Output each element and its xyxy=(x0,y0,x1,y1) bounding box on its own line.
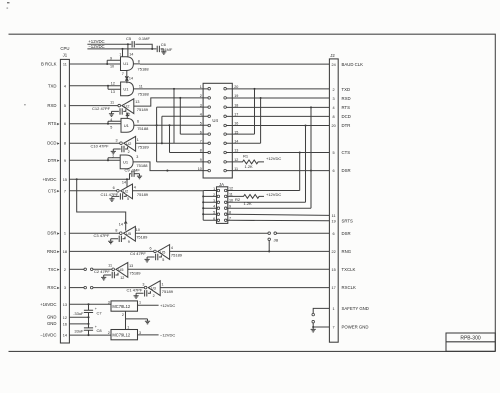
svg-text:8: 8 xyxy=(138,59,140,63)
svg-text:3: 3 xyxy=(108,301,110,305)
svg-text:DSR: DSR xyxy=(47,231,56,236)
svg-text:5: 5 xyxy=(127,197,129,201)
svg-text:2: 2 xyxy=(153,294,155,298)
svg-text:RTS: RTS xyxy=(48,121,57,126)
wire JA input bus xyxy=(203,191,217,221)
wire -16VDC from J1 to regulator 2 xyxy=(69,334,111,336)
svg-text:7: 7 xyxy=(122,72,124,76)
wire -12VDC rail xyxy=(87,48,163,50)
svg-text:75188: 75188 xyxy=(138,91,150,96)
svg-text:RTS: RTS xyxy=(342,105,351,110)
wire RXD input from U4 pin 2 xyxy=(134,98,208,106)
svg-text:U5: U5 xyxy=(126,231,132,236)
op-amp U5 receiver (TXC) xyxy=(112,263,128,278)
regulator U7 MC79L12 xyxy=(111,330,138,340)
op-amp U1 driver gate (TXD) xyxy=(121,82,134,96)
svg-text:JB: JB xyxy=(274,237,279,242)
svg-text:DTR: DTR xyxy=(342,123,351,128)
wire RTS output to U4 pin 5 xyxy=(134,124,208,126)
connector J1 (CPU) body xyxy=(60,46,69,343)
svg-text:CTS: CTS xyxy=(48,188,57,193)
U4 right pin circles xyxy=(224,87,227,171)
wire +5VDC from J1 xyxy=(69,174,131,180)
wire regulator ground link xyxy=(126,311,148,329)
svg-text:CTS: CTS xyxy=(342,150,351,155)
J2 pin numbers xyxy=(331,63,335,329)
svg-text:14: 14 xyxy=(129,77,133,81)
U4 left pin circles xyxy=(208,87,211,171)
svg-text:75189: 75189 xyxy=(129,271,141,276)
svg-text:U2: U2 xyxy=(123,189,129,194)
svg-text:12: 12 xyxy=(111,82,115,86)
svg-text:11: 11 xyxy=(108,263,112,267)
svg-text:−16VDC: −16VDC xyxy=(40,333,56,338)
svg-text:+5VDC: +5VDC xyxy=(43,177,57,182)
svg-text:RNG: RNG xyxy=(342,249,352,254)
connector J2 body xyxy=(329,53,338,342)
wire v1 vertical xyxy=(157,107,208,162)
wire +16VDC from J1 to regulator xyxy=(69,303,111,305)
wire JA pin8 to J2 pin11 xyxy=(227,214,329,215)
wire U4 pin18 to J2 pin4 xyxy=(226,106,329,108)
node TXD/v4 xyxy=(173,88,175,90)
svg-text:MC79L12: MC79L12 xyxy=(112,333,130,338)
svg-text:6: 6 xyxy=(150,247,152,251)
wire CTS pwr stub xyxy=(126,179,128,187)
svg-text:DCD: DCD xyxy=(342,114,351,119)
wire CTS output to J1 xyxy=(69,190,116,192)
J1 pin numbers xyxy=(63,63,67,338)
svg-text:MC78L12: MC78L12 xyxy=(112,304,130,309)
svg-text:14: 14 xyxy=(129,53,133,57)
svg-text:+16VDC: +16VDC xyxy=(40,302,56,307)
svg-text:U1: U1 xyxy=(123,87,129,92)
op-amp U5 receiver (DSR) xyxy=(120,226,136,241)
svg-text:5: 5 xyxy=(162,258,164,262)
svg-text:1.2K: 1.2K xyxy=(244,201,253,206)
svg-text:19: 19 xyxy=(331,219,335,223)
wire U1 gnd stub pin7 xyxy=(126,71,128,75)
U4 left pin numbers 1-10 xyxy=(198,85,202,171)
svg-text:1: 1 xyxy=(127,325,129,329)
svg-text:DSR: DSR xyxy=(342,168,351,173)
jumper RXC open pins xyxy=(84,286,87,289)
svg-text:TXCLK: TXCLK xyxy=(342,267,356,272)
svg-text:8: 8 xyxy=(64,142,66,146)
wire GND rows from J1 xyxy=(69,317,88,324)
op-amp U1 driver gate (DTR) xyxy=(120,155,133,169)
svg-text:22: 22 xyxy=(331,250,335,254)
svg-text:16: 16 xyxy=(63,322,67,326)
wire DSR output to J1 xyxy=(69,232,119,234)
svg-text:2: 2 xyxy=(128,150,130,154)
IC U4 DIP header body xyxy=(203,83,232,178)
svg-text:U4: U4 xyxy=(212,118,218,123)
svg-text:14: 14 xyxy=(119,222,123,226)
svg-text:U5: U5 xyxy=(118,267,124,272)
wire U4 pin17 to J2 pin8 xyxy=(226,115,329,117)
node RTS/v1 xyxy=(156,124,158,126)
svg-text:R2: R2 xyxy=(235,197,241,202)
svg-text:11: 11 xyxy=(332,214,336,218)
svg-text:5: 5 xyxy=(200,122,202,126)
svg-text:1: 1 xyxy=(119,53,121,57)
svg-text:13: 13 xyxy=(129,264,133,268)
svg-text:2: 2 xyxy=(333,88,335,92)
svg-text:GND: GND xyxy=(47,315,57,320)
svg-text:DSR: DSR xyxy=(342,231,351,236)
svg-text:9: 9 xyxy=(110,56,112,60)
wire DTR output to U4 pin 10 xyxy=(133,162,208,171)
svg-text:0.1MF: 0.1MF xyxy=(139,36,151,41)
svg-text:2: 2 xyxy=(112,155,114,159)
svg-text:1: 1 xyxy=(200,85,202,89)
svg-text:20: 20 xyxy=(234,85,238,89)
op-amp U1 driver gate (B RCLK) xyxy=(121,57,134,71)
wire RXC from J1 to jumper xyxy=(69,287,84,289)
svg-text:12: 12 xyxy=(120,276,124,280)
svg-text:DCD: DCD xyxy=(47,141,56,146)
svg-text:2: 2 xyxy=(122,313,124,317)
svg-text:R1: R1 xyxy=(243,153,249,158)
JA right pin circles xyxy=(224,189,227,221)
svg-text:12: 12 xyxy=(63,316,67,320)
wire v5 to U4 pin8 xyxy=(170,125,209,152)
capacitor C8 xyxy=(88,324,90,335)
svg-text:75189: 75189 xyxy=(171,253,183,258)
node RTS/v5 xyxy=(168,124,170,126)
wire J2 pin5 line xyxy=(300,152,330,154)
wire U4 pin6 to v3 xyxy=(180,98,208,134)
wire U4 pin19 to J2 pin3 xyxy=(226,97,329,99)
capacitor C7 xyxy=(88,304,90,317)
svg-text:RXCLK: RXCLK xyxy=(342,285,356,290)
svg-text:33uF: 33uF xyxy=(74,329,84,334)
svg-text:+12VDC: +12VDC xyxy=(160,303,175,308)
wire +12VDC output xyxy=(138,304,159,306)
svg-text:4: 4 xyxy=(333,106,335,110)
svg-text:U1: U1 xyxy=(123,160,129,165)
capacitor C6 xyxy=(157,46,159,52)
svg-text:POWER GND: POWER GND xyxy=(342,325,369,330)
svg-text:C5: C5 xyxy=(126,36,132,41)
wire JB drop to RNG net xyxy=(268,241,270,252)
J2 signal name labels xyxy=(342,62,369,329)
regulator U6 MC78L12 xyxy=(111,301,138,311)
svg-text:6: 6 xyxy=(64,122,66,126)
op-amp U2 receiver (DCD) xyxy=(120,136,136,151)
scan specks xyxy=(7,2,10,3)
svg-text:10: 10 xyxy=(136,228,140,232)
jumper JB xyxy=(268,232,271,235)
svg-text:75188: 75188 xyxy=(138,67,150,72)
svg-text:5: 5 xyxy=(110,126,112,130)
svg-text:+12VDC: +12VDC xyxy=(266,156,281,161)
wire RXD output to J1 xyxy=(69,105,118,107)
svg-text:75189: 75189 xyxy=(136,234,148,239)
svg-text:14: 14 xyxy=(63,334,67,338)
JA left pin circles xyxy=(217,189,220,221)
svg-text:8: 8 xyxy=(115,228,117,232)
wire RNG output to J1 xyxy=(69,250,153,252)
jumper TXC open pins xyxy=(84,268,87,271)
svg-text:RXC: RXC xyxy=(47,285,56,290)
wire U4 pin13 to node v10 xyxy=(226,152,299,154)
svg-text:TXD: TXD xyxy=(342,87,351,92)
svg-text:75188: 75188 xyxy=(137,126,149,131)
wire TXC from J1 to jumper xyxy=(69,268,84,270)
svg-text:RNG: RNG xyxy=(47,249,57,254)
JA right pin numbers xyxy=(229,187,233,221)
op-amp U2 receiver (RXD) xyxy=(118,99,134,114)
svg-text:75189: 75189 xyxy=(138,145,150,150)
svg-text:3: 3 xyxy=(64,286,66,290)
svg-text:7: 7 xyxy=(64,189,66,193)
ground (power gnd) xyxy=(311,327,316,332)
power arrow (U1 pin 14) xyxy=(126,78,129,83)
svg-text:9: 9 xyxy=(229,204,231,208)
node RTS branch xyxy=(107,123,109,125)
svg-text:6: 6 xyxy=(137,120,139,124)
svg-text:14: 14 xyxy=(122,180,126,184)
svg-text:U2: U2 xyxy=(124,104,130,109)
ground (U1) xyxy=(125,74,128,79)
svg-text:10: 10 xyxy=(198,167,202,171)
svg-text:TXD: TXD xyxy=(48,83,57,88)
svg-text:1: 1 xyxy=(162,282,164,286)
node DCD/v2 xyxy=(161,142,163,144)
svg-text:J2: J2 xyxy=(330,53,335,58)
svg-text:2: 2 xyxy=(108,331,110,335)
node B RCLK branch xyxy=(106,63,108,65)
svg-text:+12VDC: +12VDC xyxy=(266,192,281,197)
svg-text:RXD: RXD xyxy=(47,103,56,108)
svg-text:9: 9 xyxy=(128,240,130,244)
svg-text:U2: U2 xyxy=(126,141,132,146)
wire DTR from J1 xyxy=(69,158,120,161)
svg-text:9: 9 xyxy=(64,159,66,163)
J1 label direction arrows xyxy=(57,123,59,289)
svg-text:20: 20 xyxy=(331,124,335,128)
wire RXC input to J2 pin17 xyxy=(160,287,329,289)
svg-text:75189: 75189 xyxy=(137,107,149,112)
ground (C9) xyxy=(137,174,142,179)
svg-text:1: 1 xyxy=(137,138,139,142)
wire v4 vertical xyxy=(173,89,175,143)
wire U4 pin11 to J2 pin6 xyxy=(226,170,329,172)
svg-text:U5: U5 xyxy=(160,249,166,254)
svg-text:C2 47PF: C2 47PF xyxy=(94,269,110,274)
svg-text:3: 3 xyxy=(139,331,141,335)
JA left pin numbers xyxy=(213,187,215,221)
wire JA pin7 to J2 pin19 xyxy=(227,219,329,222)
svg-text:RPB-300: RPB-300 xyxy=(460,336,481,342)
wire U4 pin16 to J2 pin20 xyxy=(226,125,329,127)
svg-text:10: 10 xyxy=(110,65,114,69)
svg-text:13: 13 xyxy=(63,303,67,307)
svg-text:CPU: CPU xyxy=(60,46,69,51)
svg-text:3: 3 xyxy=(333,97,335,101)
svg-text:12: 12 xyxy=(229,187,233,191)
wire U1 power stubs xyxy=(123,44,128,56)
wire TXD from J1 xyxy=(69,86,120,90)
svg-text:3: 3 xyxy=(115,138,117,142)
U4 right pin numbers 20-11 xyxy=(234,85,238,171)
svg-text:SRTS: SRTS xyxy=(342,218,354,223)
svg-text:4: 4 xyxy=(134,185,136,189)
svg-text:15: 15 xyxy=(63,178,67,182)
svg-text:C4 47PF: C4 47PF xyxy=(130,251,146,256)
op-amp U3 receiver (RXC) xyxy=(144,281,160,296)
svg-text:7: 7 xyxy=(333,326,335,330)
svg-text:13: 13 xyxy=(135,100,139,104)
wire TXC input to J2 pin15 xyxy=(128,268,330,270)
svg-text:J1: J1 xyxy=(63,52,68,57)
op-amp U5 receiver (RNG) xyxy=(154,245,170,260)
node +5VDC CTS pwr xyxy=(126,178,128,180)
svg-text:18: 18 xyxy=(63,250,67,254)
wire B RCLK from J1 xyxy=(69,60,120,64)
wire TXD output to U4 pin 1 xyxy=(134,88,209,90)
svg-text:11: 11 xyxy=(110,101,114,105)
title block xyxy=(446,333,495,351)
svg-text:3: 3 xyxy=(136,155,138,159)
svg-text:C12 47PF: C12 47PF xyxy=(92,106,111,111)
wire -12VDC output xyxy=(138,334,159,336)
svg-text:C8: C8 xyxy=(97,328,103,333)
border frame xyxy=(9,34,496,351)
svg-text:15: 15 xyxy=(331,268,335,272)
svg-text:1: 1 xyxy=(64,232,66,236)
svg-text:6: 6 xyxy=(333,232,335,236)
op-amp U2 receiver (CTS) xyxy=(117,184,133,199)
svg-text:1: 1 xyxy=(333,307,335,311)
svg-text:4: 4 xyxy=(64,84,66,88)
svg-text:−12VDC: −12VDC xyxy=(160,333,175,338)
svg-text:C10 47PF: C10 47PF xyxy=(91,144,110,149)
svg-text:2: 2 xyxy=(200,94,202,98)
svg-text:U3: U3 xyxy=(151,286,157,291)
wire U4 pin20 to J2 pin2 xyxy=(226,88,329,90)
wire U4 pin14 loop to pin19 net xyxy=(226,98,260,143)
svg-text:6: 6 xyxy=(113,186,115,190)
svg-text:3: 3 xyxy=(142,283,144,287)
wire B RCLK output to J2 pin 24 xyxy=(133,63,329,65)
svg-text:B RCLK: B RCLK xyxy=(41,62,57,67)
svg-text:8: 8 xyxy=(333,115,335,119)
node +5VDC branch xyxy=(76,178,78,180)
wire RNG input to J2 pin22 xyxy=(170,250,330,252)
svg-text:U1: U1 xyxy=(123,61,129,66)
wire +12VDC rail xyxy=(87,44,152,49)
svg-text:DTR: DTR xyxy=(48,158,57,163)
svg-text:4: 4 xyxy=(110,118,112,122)
svg-text:75189: 75189 xyxy=(162,289,174,294)
svg-text:BAUD CLK: BAUD CLK xyxy=(342,62,364,67)
wire JB to J2 pin6 xyxy=(276,232,329,234)
wire J2 safety gnd jumper xyxy=(313,308,329,313)
resistor R1 xyxy=(226,160,264,164)
svg-text:5: 5 xyxy=(333,151,335,155)
svg-text:24: 24 xyxy=(331,63,335,67)
svg-text:C9 .1MF: C9 .1MF xyxy=(125,168,141,173)
node DTR branch xyxy=(107,159,109,161)
svg-text:U1: U1 xyxy=(124,123,130,128)
resistor R2 xyxy=(227,195,264,199)
svg-text:11: 11 xyxy=(139,85,143,89)
svg-text:C3 47PF: C3 47PF xyxy=(94,233,110,238)
wire U4 pin15 loop to pin20 net xyxy=(226,89,254,134)
svg-text:5: 5 xyxy=(64,104,66,108)
wire DCD input line to U4 pin 7 xyxy=(136,142,208,144)
wire U4 pin4 to v2 xyxy=(162,116,208,143)
capacitor C5 xyxy=(132,41,134,47)
svg-text:SAFETY GND: SAFETY GND xyxy=(342,306,369,311)
op-amp U1 driver gate (RTS) xyxy=(121,118,134,132)
wire v8 vertical xyxy=(227,107,311,208)
wire RTS from J1 xyxy=(69,121,121,124)
wire U4 pin3 to node v1 xyxy=(157,106,208,108)
svg-text:C7: C7 xyxy=(97,310,103,315)
svg-text:7: 7 xyxy=(200,140,202,144)
svg-text:4: 4 xyxy=(171,246,173,250)
node v3 top xyxy=(179,97,181,99)
svg-text:13: 13 xyxy=(111,90,115,94)
wire +5V feed to DSR receiver pin 14 xyxy=(77,179,126,230)
svg-text:6: 6 xyxy=(333,169,335,173)
ground (regulators) xyxy=(145,319,150,324)
wire CTS input line to JA bus xyxy=(133,190,204,192)
svg-text:1.2K: 1.2K xyxy=(245,164,254,169)
power arrow (RTS gate) xyxy=(126,113,129,118)
svg-text:JA: JA xyxy=(219,182,224,187)
svg-text:C1 47PF: C1 47PF xyxy=(127,288,143,293)
svg-text:.33uF: .33uF xyxy=(73,311,84,316)
J1 signal name labels xyxy=(40,62,57,338)
node +12 to U1 pin14 xyxy=(127,43,129,45)
node DTR corner xyxy=(166,170,168,172)
svg-text:11: 11 xyxy=(63,63,67,67)
ground (C6) xyxy=(161,49,166,54)
svg-text:TXC: TXC xyxy=(48,267,57,272)
svg-text:2: 2 xyxy=(64,268,66,272)
node TXD branch xyxy=(107,85,109,87)
wire DSR input to jumper JB xyxy=(135,232,268,234)
svg-text:18: 18 xyxy=(234,103,238,107)
wire v9 vertical to JA pin10 xyxy=(227,126,306,203)
svg-text:17: 17 xyxy=(331,286,335,290)
svg-text:10: 10 xyxy=(229,199,233,203)
IC JA jumper header body xyxy=(217,187,228,224)
svg-text:GND: GND xyxy=(47,321,57,326)
wire v10 vertical to JA pin12 xyxy=(227,153,300,191)
wire DCD output to J1 xyxy=(69,142,119,144)
svg-text:1: 1 xyxy=(139,301,141,305)
svg-text:RXD: RXD xyxy=(342,96,351,101)
svg-text:75189: 75189 xyxy=(137,192,149,197)
nodes JA bus xyxy=(202,195,204,197)
